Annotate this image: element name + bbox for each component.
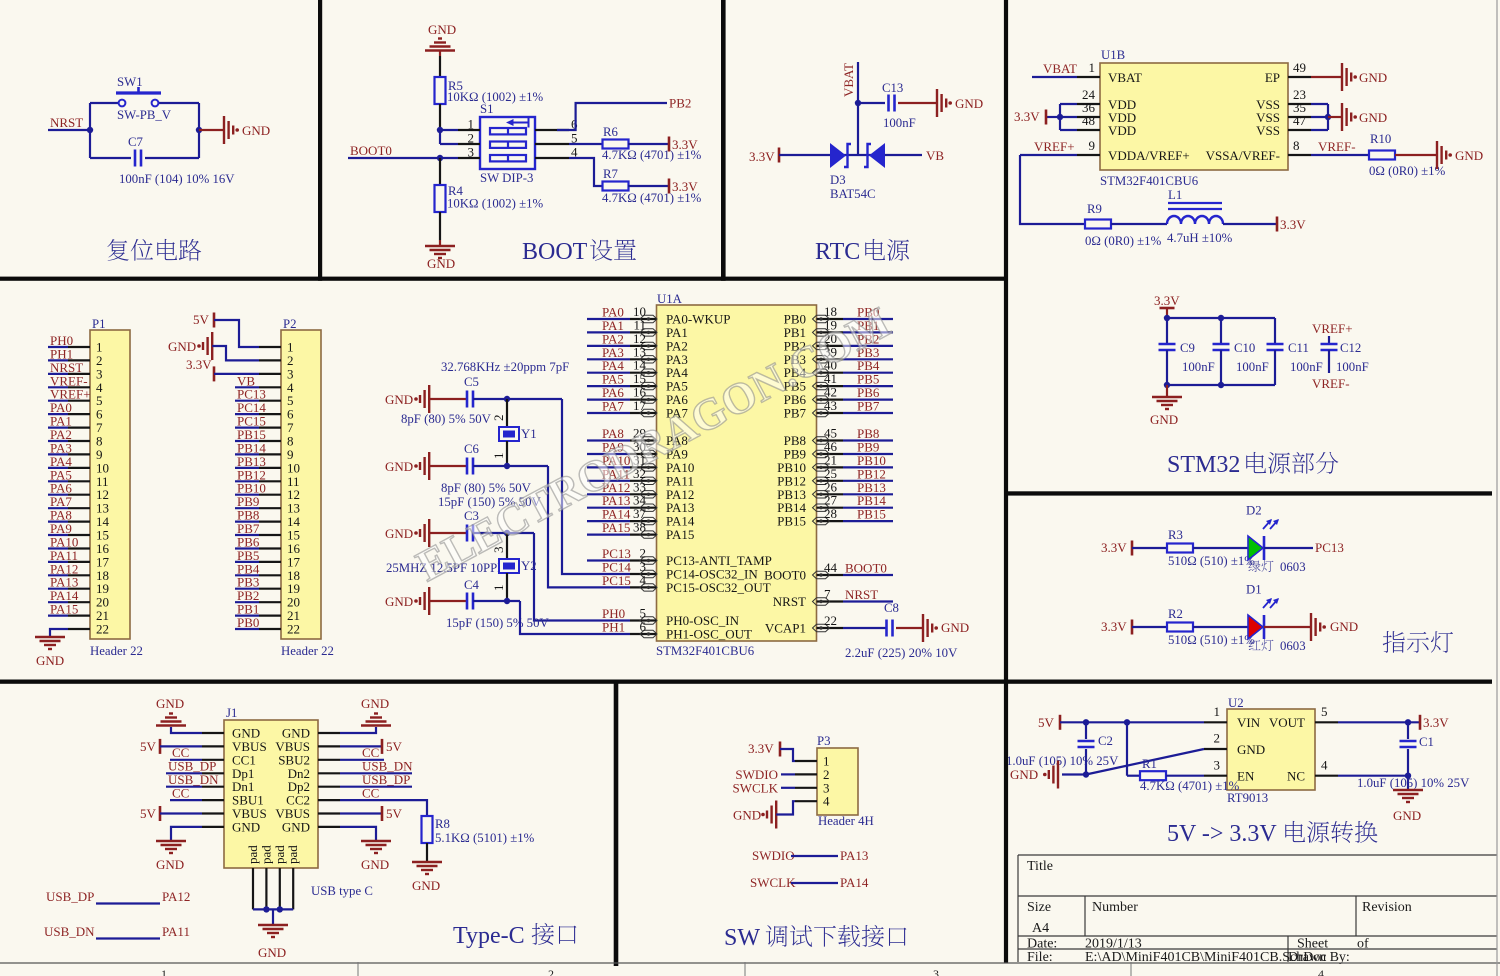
- svg-text:SW1: SW1: [117, 75, 143, 89]
- pin 15 PA5: [630, 385, 657, 387]
- pin 12 PA2: [630, 345, 657, 347]
- svg-text:PC15-OSC32_OUT: PC15-OSC32_OUT: [666, 580, 771, 595]
- power 5V right row7: [340, 812, 382, 814]
- svg-text:GND: GND: [1010, 767, 1038, 782]
- svg-text:SW-PB_V: SW-PB_V: [117, 108, 172, 122]
- svg-text:R8: R8: [435, 817, 450, 831]
- svg-text:STM32F401CBU6: STM32F401CBU6: [1100, 174, 1199, 188]
- svg-text:5V: 5V: [193, 312, 210, 327]
- resistor R7: [603, 182, 629, 191]
- node VSS: [1325, 114, 1331, 120]
- svg-text:C6: C6: [464, 442, 480, 456]
- svg-text:A4: A4: [1032, 921, 1049, 936]
- svg-text:VIN: VIN: [1237, 715, 1261, 730]
- svg-text:J1: J1: [226, 706, 237, 720]
- svg-text:PA15: PA15: [50, 602, 78, 617]
- pin 2 P2: [259, 359, 281, 361]
- capacitor C6: [429, 465, 467, 467]
- svg-text:VCAP1: VCAP1: [765, 621, 806, 636]
- svg-text:8: 8: [1293, 138, 1300, 153]
- pin 16 P1: [68, 547, 90, 549]
- svg-text:GND: GND: [1150, 412, 1178, 427]
- svg-text:GND: GND: [941, 620, 969, 635]
- pin 4 PC15-OSC32_OUT: [630, 586, 657, 588]
- pin 22 P1: [68, 628, 90, 630]
- svg-text:GND: GND: [385, 459, 413, 474]
- svg-text:22: 22: [824, 613, 837, 628]
- ground GND C2: [1062, 773, 1086, 775]
- svg-text:4.7KΩ (4701) ±1%: 4.7KΩ (4701) ±1%: [1140, 779, 1240, 793]
- pin left VBUS: [202, 812, 224, 814]
- svg-text:Header 4H: Header 4H: [818, 814, 874, 828]
- svg-text:C12: C12: [1340, 341, 1361, 355]
- pin right Dp2: [318, 786, 340, 788]
- svg-text:PA12: PA12: [162, 889, 190, 904]
- svg-text:BAT54C: BAT54C: [830, 187, 876, 201]
- svg-text:32.768KHz ±20ppm 7pF: 32.768KHz ±20ppm 7pF: [441, 360, 569, 374]
- resistor R4: [439, 158, 441, 185]
- ground GND VSS: [1328, 116, 1342, 118]
- pin 4: [535, 157, 569, 159]
- pin 37 PA14: [630, 520, 657, 522]
- svg-text:U1A: U1A: [657, 292, 683, 306]
- svg-text:BOOT: BOOT: [522, 239, 588, 265]
- svg-text:GND: GND: [1237, 742, 1265, 757]
- svg-text:EN: EN: [1237, 769, 1255, 784]
- svg-text:7: 7: [824, 587, 831, 602]
- pin 17 PA7: [630, 412, 657, 414]
- power 3.3V R7: [668, 179, 671, 194]
- svg-text:1: 1: [491, 453, 506, 460]
- node junction right: [196, 127, 202, 133]
- svg-text:PB2: PB2: [669, 96, 691, 111]
- pin right VBUS: [318, 812, 340, 814]
- pin right Dn2: [318, 772, 340, 774]
- wire to R7: [569, 158, 602, 186]
- pin 2: [458, 143, 480, 145]
- pin right GND: [318, 826, 340, 828]
- svg-text:1.0uF (105) 10% 25V: 1.0uF (105) 10% 25V: [1357, 776, 1470, 790]
- svg-text:PA15: PA15: [602, 520, 630, 535]
- svg-text:R3: R3: [1168, 528, 1183, 542]
- pin 5 P1: [68, 400, 90, 402]
- svg-text:R6: R6: [603, 125, 619, 139]
- pin 3 EN: [1204, 775, 1227, 777]
- svg-text:VOUT: VOUT: [1269, 715, 1305, 730]
- pin 40 PB4: [817, 372, 844, 374]
- svg-text:SWCLK: SWCLK: [750, 875, 796, 890]
- svg-text:GND: GND: [156, 696, 184, 711]
- pin VDD 36: [1077, 116, 1100, 118]
- switch SW1: [119, 100, 126, 107]
- pin 5: [535, 143, 569, 145]
- power 3.3V VDD: [1046, 116, 1060, 118]
- svg-text:GND: GND: [1455, 148, 1483, 163]
- pin 1 P3: [795, 760, 817, 762]
- svg-text:pad: pad: [285, 845, 300, 864]
- svg-text:VREF-: VREF-: [1318, 139, 1356, 154]
- power 3.3V R6: [668, 137, 671, 152]
- svg-text:PB7: PB7: [784, 406, 807, 421]
- pin 17 P1: [68, 561, 90, 563]
- pin 15 P2: [259, 534, 281, 536]
- svg-text:PA15: PA15: [666, 527, 694, 542]
- svg-text:Number: Number: [1092, 900, 1138, 915]
- ground GND R8: [426, 843, 428, 862]
- wire BOOT0: [348, 157, 440, 159]
- svg-text:0Ω (0R0) ±1%: 0Ω (0R0) ±1%: [1369, 164, 1446, 178]
- svg-text:47: 47: [1293, 113, 1307, 128]
- svg-text:5V -> 3.3V: 5V -> 3.3V: [1167, 821, 1277, 847]
- pin 18 PB0: [817, 318, 844, 320]
- node BOOT0: [437, 155, 443, 161]
- pin VBAT 1: [1077, 76, 1100, 78]
- capacitor C13: [858, 102, 885, 104]
- pin 11 PA1: [630, 331, 657, 333]
- svg-text:USB type C: USB type C: [311, 884, 373, 898]
- svg-text:C5: C5: [464, 375, 479, 389]
- capacitor C1: [1407, 722, 1409, 739]
- pin right VBUS: [318, 745, 340, 747]
- wire PC13 stub: [587, 559, 630, 561]
- pin 14 P1: [68, 520, 90, 522]
- svg-text:NRST: NRST: [50, 115, 83, 130]
- LED D1 red: [1248, 615, 1263, 639]
- capacitor C3: [429, 532, 467, 534]
- svg-text:3: 3: [468, 145, 475, 160]
- svg-text:4.7uH ±10%: 4.7uH ±10%: [1167, 231, 1233, 245]
- svg-text:SWDIO: SWDIO: [752, 848, 795, 863]
- pin 28 PB15: [817, 520, 844, 522]
- svg-text:3: 3: [933, 967, 939, 976]
- svg-text:100nF (104) 10% 16V: 100nF (104) 10% 16V: [119, 172, 235, 186]
- pin 2 P3: [795, 773, 817, 775]
- svg-text:GND: GND: [361, 857, 389, 872]
- pin VSS 23: [1288, 103, 1311, 105]
- svg-text:3.3V: 3.3V: [1154, 293, 1180, 308]
- svg-text:PC15: PC15: [602, 573, 631, 588]
- svg-text:VSSA/VREF-: VSSA/VREF-: [1206, 148, 1280, 163]
- wire C5 to PC14: [473, 398, 562, 400]
- pin 27 PB14: [817, 507, 844, 509]
- capacitor C7: [90, 157, 131, 159]
- svg-text:28: 28: [824, 506, 837, 521]
- svg-text:RT9013: RT9013: [1227, 791, 1268, 805]
- pin 3: [458, 157, 480, 159]
- pin 18 P1: [68, 574, 90, 576]
- svg-text:3.3V: 3.3V: [748, 741, 774, 756]
- pin 3 P2: [259, 373, 281, 375]
- svg-text:C11: C11: [1288, 341, 1309, 355]
- svg-text:GND: GND: [412, 878, 440, 893]
- svg-text:9: 9: [1089, 138, 1096, 153]
- pin 19 P1: [68, 588, 90, 590]
- pin 31 PA10: [630, 466, 657, 468]
- svg-text:S1: S1: [480, 102, 494, 116]
- wire GND pin2 diagonal: [1086, 749, 1204, 775]
- pin 8 P2: [259, 440, 281, 442]
- svg-text:Title: Title: [1027, 859, 1053, 874]
- svg-text:PA13: PA13: [840, 848, 868, 863]
- ground GND bottom: [439, 240, 441, 246]
- pin 9 P2: [259, 453, 281, 455]
- svg-text:5V: 5V: [386, 806, 403, 821]
- svg-text:GND: GND: [1330, 619, 1358, 634]
- pin 4 P1: [68, 386, 90, 388]
- svg-text:3.3V: 3.3V: [672, 137, 698, 152]
- svg-text:100nF: 100nF: [1336, 360, 1369, 374]
- svg-text:GND: GND: [156, 857, 184, 872]
- svg-text:R9: R9: [1087, 202, 1102, 216]
- wire C3 to PH0: [473, 532, 534, 534]
- svg-text:RTC: RTC: [815, 239, 860, 265]
- pin 7 NRST: [817, 600, 844, 602]
- wire EN via R1: [1126, 722, 1128, 775]
- svg-text:GND: GND: [385, 392, 413, 407]
- pin 19 P2: [259, 588, 281, 590]
- capacitor C5: [429, 398, 467, 400]
- svg-text:5V: 5V: [1038, 715, 1055, 730]
- title 指示灯: [1383, 631, 1405, 653]
- sheet border: [0, 962, 1500, 964]
- pin 1 P1: [68, 346, 90, 348]
- LED D2 green: [1248, 536, 1263, 560]
- pin 9 P1: [68, 453, 90, 455]
- svg-text:CC: CC: [172, 786, 189, 801]
- power 3.3V L1: [1223, 223, 1277, 225]
- pin left SBU1: [202, 799, 224, 801]
- svg-text:GND: GND: [36, 653, 64, 668]
- ground GND pads: [272, 909, 274, 925]
- svg-text:4: 4: [1318, 967, 1324, 976]
- svg-text:510Ω (510) ±1%: 510Ω (510) ±1%: [1168, 554, 1255, 568]
- pin 10 PA0-WKUP: [630, 318, 657, 320]
- pin 29 PA8: [630, 439, 657, 441]
- svg-text:3.3V: 3.3V: [1101, 540, 1127, 555]
- svg-text:R10: R10: [1370, 132, 1391, 146]
- svg-text:STM32: STM32: [1167, 452, 1240, 478]
- svg-text:2: 2: [1214, 731, 1221, 746]
- pin 2 P1: [68, 359, 90, 361]
- wire bottom rail: [1167, 384, 1275, 386]
- wire down to pin2: [439, 130, 441, 144]
- svg-text:3.3V: 3.3V: [1101, 619, 1127, 634]
- resistor R6: [569, 143, 602, 145]
- pin 34 PA13: [630, 507, 657, 509]
- svg-text:PA11: PA11: [162, 924, 190, 939]
- svg-text:6: 6: [640, 619, 647, 634]
- pin 3 PC14-OSC32_IN: [630, 573, 657, 575]
- wire to S1 pin1: [440, 129, 458, 131]
- svg-text:Y1: Y1: [521, 427, 537, 441]
- wire VSS bus: [1327, 104, 1329, 130]
- svg-text:C9: C9: [1180, 341, 1195, 355]
- pin 4 P2: [259, 386, 281, 388]
- svg-text:VREF+: VREF+: [1034, 139, 1075, 154]
- wire P1 pin22 to ground: [50, 629, 68, 637]
- svg-text:3.3V: 3.3V: [672, 179, 698, 194]
- svg-text:0603: 0603: [1280, 639, 1306, 653]
- capacitor C8: [843, 627, 886, 629]
- svg-text:VREF-: VREF-: [1312, 376, 1350, 391]
- svg-text:VSS: VSS: [1256, 123, 1280, 138]
- svg-text:0603: 0603: [1280, 560, 1306, 574]
- svg-text:NRST: NRST: [845, 587, 878, 602]
- ground GND D1: [1264, 626, 1311, 628]
- svg-text:5.1KΩ (5101) ±1%: 5.1KΩ (5101) ±1%: [435, 831, 535, 845]
- resistor R2: [1132, 626, 1167, 628]
- pin 14 P2: [259, 520, 281, 522]
- node junction left: [87, 127, 93, 133]
- pin left Dn1: [202, 786, 224, 788]
- capacitor C4: [429, 600, 467, 602]
- svg-text:SWCLK: SWCLK: [733, 781, 779, 796]
- svg-text:PH1-OSC_OUT: PH1-OSC_OUT: [666, 627, 752, 642]
- wire C6 to PC15: [473, 465, 548, 467]
- svg-text:GND: GND: [733, 808, 761, 823]
- pin VSS 35: [1288, 116, 1311, 118]
- svg-text:GND: GND: [1359, 110, 1387, 125]
- svg-text:VB: VB: [926, 148, 944, 163]
- svg-text:17: 17: [633, 398, 647, 413]
- pin 21 PB10: [817, 466, 844, 468]
- svg-text:GND: GND: [168, 339, 196, 354]
- svg-text:BOOT0: BOOT0: [350, 143, 392, 158]
- pin 5 P2: [259, 400, 281, 402]
- svg-text:PB15: PB15: [777, 514, 806, 529]
- svg-text:10KΩ (1002) ±1%: 10KΩ (1002) ±1%: [447, 197, 543, 211]
- svg-text:PB15: PB15: [857, 507, 886, 522]
- ground GND C1: [1393, 789, 1423, 791]
- pin 46 PB9: [817, 453, 844, 455]
- pin 2 PC13-ANTI_TAMP: [630, 559, 657, 561]
- pin 4 P3: [795, 800, 817, 802]
- svg-text:VBAT: VBAT: [1108, 70, 1142, 85]
- svg-text:Type-C: Type-C: [453, 923, 525, 949]
- svg-text:1.0uF (105) 10% 25V: 1.0uF (105) 10% 25V: [1006, 754, 1119, 768]
- svg-text:3.3V: 3.3V: [1280, 217, 1306, 232]
- capacitor C11: [1274, 318, 1276, 344]
- pin 20 P1: [68, 601, 90, 603]
- pads J1 bottom: [252, 868, 254, 909]
- title 复位电路: [107, 239, 128, 261]
- svg-text:GND: GND: [361, 696, 389, 711]
- pin 4 NC: [1315, 775, 1338, 777]
- wire R2 to D1: [1193, 626, 1248, 628]
- pin right CC2: [318, 799, 340, 801]
- svg-text:43: 43: [824, 398, 837, 413]
- svg-text:1: 1: [1214, 704, 1221, 719]
- ground GND reset: [199, 129, 224, 131]
- svg-text:VREF+: VREF+: [1312, 321, 1353, 336]
- svg-text:EP: EP: [1265, 70, 1280, 85]
- svg-text:GND: GND: [1393, 808, 1421, 823]
- node C5/Y1: [504, 396, 510, 402]
- pin 6: [535, 129, 569, 131]
- wire right vertical: [198, 103, 200, 158]
- svg-text:R1: R1: [1142, 757, 1157, 771]
- svg-text:USB_DN: USB_DN: [44, 924, 95, 939]
- svg-text:VDDA/VREF+: VDDA/VREF+: [1108, 148, 1190, 163]
- wire VREF-: [1311, 154, 1369, 156]
- pin VDD 48: [1077, 129, 1100, 131]
- pin 21 P2: [259, 614, 281, 616]
- pin VSS 47: [1288, 129, 1311, 131]
- ground GND rail: [1166, 385, 1168, 397]
- svg-text:3.3V: 3.3V: [749, 149, 775, 164]
- wire R3 to D2: [1193, 547, 1248, 549]
- svg-text:PC13: PC13: [1315, 540, 1344, 555]
- node R5/S1: [437, 127, 443, 133]
- pin 39 PB3: [817, 358, 844, 360]
- svg-text:CC: CC: [362, 786, 379, 801]
- svg-text:5V: 5V: [386, 739, 403, 754]
- pin 21 P1: [68, 614, 90, 616]
- svg-text:GND: GND: [242, 123, 270, 138]
- svg-text:NRST: NRST: [773, 594, 806, 609]
- svg-text:P3: P3: [817, 734, 831, 748]
- capacitor C9: [1166, 318, 1168, 344]
- pin left VBUS: [202, 745, 224, 747]
- pin right SBU2: [318, 759, 340, 761]
- wire NRST: [48, 129, 90, 131]
- svg-text:R7: R7: [603, 167, 619, 181]
- pin 17 P2: [259, 561, 281, 563]
- wire VREF+: [1020, 154, 1077, 156]
- svg-text:VDD: VDD: [1108, 123, 1136, 138]
- svg-text:8pF (80) 5% 50V: 8pF (80) 5% 50V: [401, 412, 492, 426]
- svg-text:D3: D3: [830, 173, 846, 187]
- pin left CC1: [202, 759, 224, 761]
- svg-text:4: 4: [1321, 757, 1328, 772]
- pin 8 P1: [68, 440, 90, 442]
- svg-text:0Ω (0R0) ±1%: 0Ω (0R0) ±1%: [1085, 234, 1162, 248]
- pin EP 49: [1288, 76, 1311, 78]
- svg-text:100nF: 100nF: [1290, 360, 1323, 374]
- svg-text:R2: R2: [1168, 607, 1183, 621]
- svg-text:44: 44: [824, 560, 838, 575]
- svg-text:3.3V: 3.3V: [186, 357, 212, 372]
- wire C4 to PH1: [473, 600, 520, 602]
- pin left GND: [202, 732, 224, 734]
- svg-text:PA7: PA7: [602, 399, 624, 414]
- svg-text:GND: GND: [258, 945, 286, 960]
- wire top right: [158, 102, 199, 104]
- pin 42 PB6: [817, 399, 844, 401]
- resistor R8: [422, 816, 433, 843]
- pin 25 PB12: [817, 480, 844, 482]
- svg-text:PB0: PB0: [237, 615, 259, 630]
- svg-text:1: 1: [491, 585, 506, 592]
- wire VOUT to 3.3V: [1338, 721, 1420, 723]
- diode D3 BAT54C dual schottky: [830, 154, 885, 156]
- ground GND top-left: [171, 727, 202, 733]
- svg-text:GND: GND: [955, 96, 983, 111]
- svg-text:5V: 5V: [140, 739, 157, 754]
- svg-text:3.3V: 3.3V: [1423, 715, 1449, 730]
- svg-text:VBAT: VBAT: [1043, 61, 1077, 76]
- resistor R3: [1132, 547, 1167, 549]
- ground GND bottom-left: [171, 827, 202, 841]
- svg-text:4: 4: [640, 572, 647, 587]
- svg-text:C4: C4: [464, 578, 480, 592]
- svg-text:Y2: Y2: [521, 559, 537, 573]
- pin 22 VCAP1: [817, 627, 844, 629]
- pin 7 P2: [259, 427, 281, 429]
- svg-text:GND: GND: [232, 819, 260, 834]
- svg-text:D1: D1: [1246, 583, 1262, 597]
- pin 11 P2: [259, 480, 281, 482]
